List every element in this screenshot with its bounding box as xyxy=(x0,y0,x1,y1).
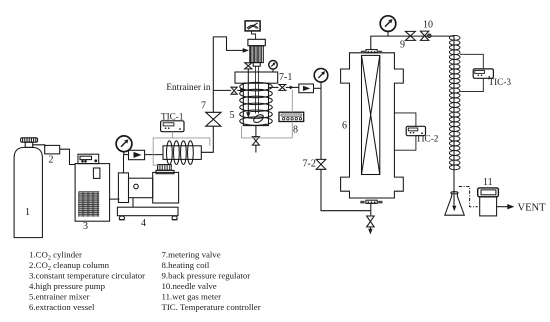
vessel 6 bottom cap with bolts xyxy=(360,200,382,203)
TIC-1 temperature controller box xyxy=(161,121,184,132)
mixer drain stub xyxy=(255,145,257,152)
vessel 6 bottom stem and drain valve xyxy=(367,203,375,234)
pressure gauge G1 at pump xyxy=(116,136,132,155)
svg-text:TIC-1: TIC-1 xyxy=(161,112,184,122)
stirrer speed controller box xyxy=(245,21,260,31)
heating coil controller box 8 xyxy=(279,112,304,121)
svg-text:8.heating coil: 8.heating coil xyxy=(162,260,210,270)
entrainer inlet line xyxy=(213,89,231,91)
pipe down to valve 7-2 xyxy=(320,88,322,159)
entrainer arrow into mixer xyxy=(237,88,246,92)
svg-text:7-1: 7-1 xyxy=(279,72,292,83)
svg-text:VENT: VENT xyxy=(518,203,547,214)
svg-text:11: 11 xyxy=(483,177,493,188)
check valve box CV2 xyxy=(299,84,314,93)
TIC-3 temperature controller box xyxy=(473,69,493,78)
svg-text:10.needle valve: 10.needle valve xyxy=(162,281,217,291)
check valve box CV1 xyxy=(129,150,145,159)
pipe gauge tee to check valve xyxy=(124,154,129,156)
svg-text:3.constant temperature circula: 3.constant temperature circulator xyxy=(29,271,145,281)
svg-text:2: 2 xyxy=(49,155,54,166)
mixer top valve xyxy=(245,63,252,72)
pipe riser to mixer motor inlet xyxy=(213,37,243,112)
pump foot left xyxy=(119,216,125,220)
wire controller to motor xyxy=(252,31,256,39)
CO2 cleanup column 2 xyxy=(45,145,60,154)
wet gas meter 11 body xyxy=(480,197,497,216)
svg-text:TIC. Temperature controller: TIC. Temperature controller xyxy=(162,302,261,312)
pump base connectors xyxy=(132,198,134,208)
arrow into motor xyxy=(243,48,249,53)
svg-text:5: 5 xyxy=(230,110,235,121)
svg-text:11.wet gas meter: 11.wet gas meter xyxy=(162,292,222,302)
entrainer mixer 5 vessel body xyxy=(243,83,268,125)
CO2 cylinder 1 handwheel xyxy=(21,138,38,142)
wet gas meter 11 top box xyxy=(478,188,499,197)
entrainer inlet valve xyxy=(231,87,237,94)
mixer bottom stem xyxy=(255,126,257,137)
flask inlet arrow xyxy=(452,206,456,212)
pump base xyxy=(117,207,178,216)
circulator display unit xyxy=(78,154,99,163)
heating coil loops xyxy=(167,141,194,165)
motor neck xyxy=(253,63,260,67)
svg-text:Entrainer in: Entrainer in xyxy=(166,83,210,93)
svg-text:9: 9 xyxy=(400,40,405,51)
dash-dot line flask to gas meter xyxy=(459,187,478,207)
pump sight circle xyxy=(134,184,139,189)
pipe CV2 to gauge tee xyxy=(314,87,322,89)
svg-text:1: 1 xyxy=(25,207,30,218)
svg-text:TIC-3: TIC-3 xyxy=(489,77,512,87)
condenser coil xyxy=(449,35,460,169)
pump mid body xyxy=(129,178,153,198)
stirrer shaft xyxy=(256,66,259,113)
top pipe to condenser xyxy=(370,35,454,37)
wire/pipe cylinder to cleanup column xyxy=(33,145,45,147)
stirrer impeller xyxy=(252,113,264,124)
extraction vessel 6 outline xyxy=(341,53,404,198)
mixer bottom valve xyxy=(252,137,259,145)
pressure gauge G3 xyxy=(314,69,328,89)
svg-text:4.high pressure pump: 4.high pressure pump xyxy=(29,281,106,291)
stirrer motor cap xyxy=(248,39,265,45)
svg-text:7.metering valve: 7.metering valve xyxy=(162,250,221,260)
svg-text:8: 8 xyxy=(293,125,298,136)
pump foot right xyxy=(172,216,178,220)
dip tube with arrow xyxy=(246,72,250,118)
TIC-3 wires xyxy=(460,54,483,91)
high pressure pump 4 left head xyxy=(118,173,128,203)
CO2 cylinder 1 body xyxy=(14,147,42,237)
svg-text:7: 7 xyxy=(201,101,206,112)
pipe mixer to valve 7-1 xyxy=(269,86,279,88)
box 8 wires (gray) xyxy=(242,90,293,138)
vessel 6 inner column with X xyxy=(362,55,380,174)
circulator switch xyxy=(93,168,100,178)
svg-text:10: 10 xyxy=(423,20,433,31)
metering valve 7 xyxy=(206,112,221,126)
vessel 6 top cap with bolts xyxy=(361,50,382,54)
svg-text:6.extraction vessel: 6.extraction vessel xyxy=(29,302,95,312)
pipe cleanup column to circulator xyxy=(60,149,75,164)
valve 7-1 xyxy=(279,85,286,91)
pressure gauge G2 on mixer xyxy=(269,61,278,72)
TIC-2 temperature controller box xyxy=(406,126,425,135)
pipe 7-2 to vessel bottom xyxy=(321,169,370,210)
stirrer motor ribbed body xyxy=(250,46,263,63)
CO2 cylinder 1 valve stem xyxy=(25,142,33,147)
svg-text:3: 3 xyxy=(83,221,88,232)
legend xyxy=(29,250,261,313)
back pressure regulator 9 xyxy=(405,31,415,40)
pipe heating coil to valve 7 riser xyxy=(201,126,213,152)
vessel 6 top stem xyxy=(370,36,372,50)
vent arrow xyxy=(497,204,515,209)
TIC-1 sensor wires (gray) xyxy=(153,132,210,166)
needle valve 10 xyxy=(420,31,431,40)
constant temperature circulator 3 body xyxy=(75,164,110,222)
svg-text:9.back pressure regulator: 9.back pressure regulator xyxy=(162,271,251,281)
ribbed mount on pump top xyxy=(156,165,174,174)
svg-text:6: 6 xyxy=(342,121,347,132)
pipe check valve to heating coil xyxy=(145,154,163,156)
svg-text:7-2: 7-2 xyxy=(303,159,316,170)
pipe pump head up to gauge xyxy=(123,155,125,173)
collection flask xyxy=(445,192,465,216)
svg-text:5.entrainer mixer: 5.entrainer mixer xyxy=(29,292,90,302)
mixer top flange xyxy=(235,72,278,83)
pipe circulator to pump xyxy=(110,198,120,200)
pressure gauge G4 xyxy=(380,16,396,36)
mixer heating coil winding xyxy=(240,82,273,125)
TIC-2 wires xyxy=(394,113,416,150)
svg-text:4: 4 xyxy=(141,218,146,229)
valve 7-2 xyxy=(316,159,326,169)
condenser central line xyxy=(453,36,455,207)
svg-text:TIC-2: TIC-2 xyxy=(416,134,439,144)
circulator grille xyxy=(79,192,100,217)
arrow after 7-1 xyxy=(286,86,299,90)
pump motor block xyxy=(153,172,179,203)
heating coil 8 body xyxy=(163,146,201,160)
